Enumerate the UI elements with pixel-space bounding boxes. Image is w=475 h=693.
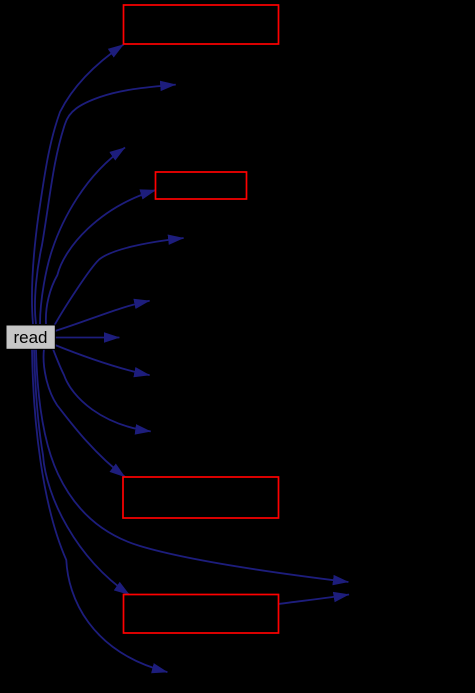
wire edge read->node7: [55, 337, 119, 339]
wire edge read->node6: [55, 301, 150, 331]
wire edge read->node3: [40, 148, 125, 325]
wire edge read->node13: [32, 349, 167, 672]
wire edge read->node5: [54, 238, 184, 326]
node12 red box: [124, 595, 279, 634]
node10 red box: [123, 477, 279, 518]
wire edge node12->node14: [279, 595, 350, 605]
wire edge read->node2: [35, 85, 176, 324]
node1 red box: [124, 5, 279, 44]
wire edge read->node11: [36, 349, 348, 582]
node4 red box: [156, 172, 247, 199]
svg-text:read: read: [13, 328, 47, 347]
wire edge read->node1: [32, 45, 123, 325]
wire edge read->node4: [46, 190, 156, 324]
wire edge read->node12: [34, 349, 130, 595]
node read (gray): [6, 325, 55, 349]
wire edge read->node9: [53, 349, 151, 431]
wire edge read->node10: [44, 349, 125, 477]
wire edge read->node8: [55, 345, 150, 375]
